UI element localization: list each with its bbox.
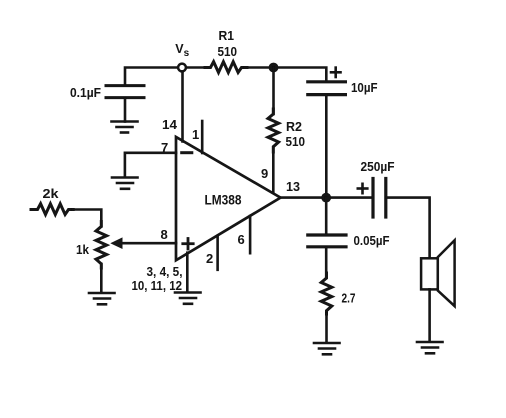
svg-text:1k: 1k bbox=[76, 242, 90, 257]
ground below C1 bbox=[112, 122, 138, 133]
ground below pot bbox=[89, 293, 115, 304]
wire R2 to op-amp pin 9 bbox=[272, 147, 275, 193]
svg-text:3, 4, 5,: 3, 4, 5, bbox=[147, 264, 183, 279]
svg-text:250µF: 250µF bbox=[361, 159, 395, 174]
pin 7 wire bbox=[125, 153, 176, 177]
wire C2 bottom to output junction bbox=[325, 96, 328, 198]
svg-text:1: 1 bbox=[192, 127, 199, 142]
potentiometer R4 1k bbox=[96, 222, 107, 269]
wire 2k to pot bbox=[73, 210, 101, 227]
speaker LS1 horn bbox=[438, 240, 455, 306]
wire R5 to ground bbox=[325, 313, 328, 342]
junction dot node at R1 right bbox=[269, 63, 279, 73]
resistor R2 510 zigzag bbox=[268, 109, 279, 152]
pin 8 wire with wiper arrow bbox=[119, 242, 176, 245]
op-amp U1 LM388 triangle bbox=[176, 137, 281, 260]
wire junction to R2 bbox=[272, 68, 275, 115]
wire junction to 10uF bbox=[274, 68, 327, 81]
resistor R3 2k bbox=[31, 204, 73, 215]
svg-text:13: 13 bbox=[286, 179, 300, 194]
svg-text:2.7: 2.7 bbox=[342, 291, 356, 306]
ground at pin 7 bbox=[112, 178, 138, 189]
node Vs terminal circle bbox=[178, 64, 186, 72]
plus sign of C4 bbox=[358, 184, 368, 193]
junction dot output node bbox=[321, 193, 331, 203]
pin 2 stub bbox=[216, 236, 219, 270]
capacitor C3 0.05uF bbox=[308, 235, 346, 247]
svg-text:14: 14 bbox=[162, 117, 178, 132]
resistor R5 2.7 bbox=[321, 273, 332, 314]
wire speaker to ground bbox=[428, 289, 431, 341]
capacitor C1 0.1uF bbox=[106, 86, 144, 98]
inverting input minus sign bbox=[182, 151, 192, 154]
capacitor C2 10uF plates bbox=[308, 82, 346, 95]
svg-text:0.1µF: 0.1µF bbox=[70, 85, 101, 100]
svg-text:10, 11, 12: 10, 11, 12 bbox=[132, 278, 183, 293]
svg-text:6: 6 bbox=[238, 232, 245, 247]
wire pot to ground bbox=[100, 264, 103, 292]
svg-text:2k: 2k bbox=[43, 186, 60, 201]
resistor R1 510 zigzag bbox=[205, 62, 247, 73]
svg-text:510: 510 bbox=[286, 134, 306, 149]
svg-text:2: 2 bbox=[206, 251, 213, 266]
svg-text:8: 8 bbox=[161, 227, 168, 242]
svg-text:10µF: 10µF bbox=[351, 80, 378, 95]
wire C1 to ground bbox=[124, 99, 127, 122]
svg-text:510: 510 bbox=[218, 44, 238, 59]
capacitor C4 250uF plates bbox=[373, 179, 386, 218]
wire Vs node to R1 bbox=[182, 66, 210, 69]
ground below R5 bbox=[314, 343, 340, 354]
svg-text:R1: R1 bbox=[219, 28, 235, 43]
svg-text:9: 9 bbox=[261, 166, 268, 181]
arrowhead of wiper bbox=[110, 237, 122, 249]
pin 14 wire from Vs node bbox=[181, 72, 184, 142]
plus sign of C2 bbox=[331, 68, 341, 77]
wire C4 to speaker bbox=[387, 198, 430, 259]
wire C3 to R5 bbox=[325, 248, 328, 278]
non-inverting input plus sign bbox=[183, 239, 193, 250]
ground pins wire (3,4,5,10,11,12) bbox=[186, 253, 189, 292]
output wire pin 13 bbox=[281, 196, 373, 199]
pin 6 stub bbox=[249, 216, 252, 253]
svg-text:R2: R2 bbox=[286, 119, 302, 134]
svg-text:0.05µF: 0.05µF bbox=[354, 233, 390, 248]
ground below op-amp bbox=[175, 293, 201, 304]
ground below speaker bbox=[417, 342, 443, 353]
speaker LS1 body bbox=[421, 258, 438, 289]
pin 1 stub bbox=[201, 121, 204, 153]
svg-text:LM388: LM388 bbox=[205, 193, 242, 208]
svg-text:7: 7 bbox=[161, 140, 168, 155]
svg-text:s: s bbox=[184, 48, 190, 59]
wire R1 to junction bbox=[245, 66, 274, 69]
wire Vs node to 0.1uF branch bbox=[125, 68, 182, 85]
wire output node to 0.05uF bbox=[325, 198, 328, 234]
